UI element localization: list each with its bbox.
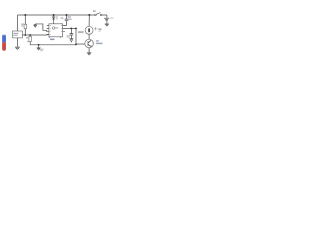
wire base rail bottom left segment [30,44,76,46]
buzzer terminals inside [88,28,90,32]
ground below node (38.6,44.8) [37,45,41,50]
wire emitter to ground [88,48,90,53]
label R1 name value [21,24,24,25]
capacitor C2 plates [70,34,74,35]
node dot (76.0,44.4) [75,44,77,46]
label near U1 circle [55,27,58,29]
label Q1 name [96,40,99,41]
node dot on rail x=25.3 [24,14,26,16]
label C1 left faint [61,17,64,19]
wire resistor R2 branch vertical [29,35,31,45]
node dot on rail x=89.3 [88,14,90,16]
wire left drop from rail corner [17,15,19,31]
pin tick above sensor [16,27,18,29]
pin stub right U1 y=31.5 [63,31,65,33]
label U1 pin numbers left [50,25,51,26]
labels (tiny gray text smudges) [13,10,113,51]
node dot (25.3,35.0) [24,34,26,36]
pin-1 circle inside U1 [52,27,54,29]
wire base rail bottom right segment [76,43,85,45]
wire buzzer top [88,15,90,26]
thermometer icon [2,34,6,51]
battery BT1 long plate [104,17,109,19]
ground below sensor [15,47,20,49]
label buzzer name [98,28,101,30]
sensor U2 box LM35 [13,31,23,38]
wire top rail [18,14,107,16]
switch SW1 lever [96,13,100,15]
ground arrow at (35.2,24.6) [34,24,37,27]
wire resistor R1 branch vertical [24,15,26,35]
label U1 pin numbers right [61,25,62,26]
buzzer LS1 circle [85,26,93,34]
label net right of x=76 [78,31,84,33]
resistor R2 box [29,36,32,41]
node dot (76.0,28.45) [75,28,77,30]
label near ground 38.6 [40,49,44,50]
switch SW1 contacts [95,14,97,16]
op-amp U1 box [49,24,63,37]
transistor Q1 internals [88,40,91,46]
ground below battery [105,24,109,26]
wire sensor output net y=35 [22,34,49,37]
resistor R1 box [24,24,27,29]
wire output net y=28.45 [63,27,76,29]
wire buzzer to transistor [88,34,90,39]
ground below Q1 [87,53,91,55]
pin stubs left U1 [47,25,49,34]
wire output drop x=76 [75,28,77,44]
svg-text:9V: 9V [110,16,113,20]
transistor right edge speck [92,42,95,45]
label LM358 under U1 [50,39,55,41]
label pin8 right of power arrow [56,16,58,17]
transistor emitter arrow [90,45,91,46]
node dot (38.6,44.8) [38,44,40,46]
label SW1 [93,10,96,12]
ground below C2 [69,39,73,42]
wire ground arrow to IC pin3 [35,24,49,31]
node dot (71.4,28.45) [71,28,73,30]
label C2 left [67,35,70,36]
wire sensor to ground [16,38,18,47]
capacitor C1 plates [65,19,69,21]
label C1 right [68,16,71,17]
transistor Q1 circle [85,39,94,48]
label R2 name value [26,37,29,38]
battery BT1 short plate [105,19,108,21]
pin stubs bottom corners U1 [50,37,60,38]
node dot (30.2,35.0) [29,34,31,36]
capacitor C2 branch down [70,28,72,38]
label sensor interior rows [13,33,18,34]
node dot on rail x=53.6 Vcc [53,14,55,16]
wire capacitor C1 branch from rail to pin1 [63,15,67,26]
node dot on rail x=66.5 [66,14,68,16]
label Q1 type [96,43,103,45]
buzzer plus mark [94,27,97,30]
power arrow and pin8 stub above U1 [52,15,55,24]
wire battery drop [106,15,108,24]
